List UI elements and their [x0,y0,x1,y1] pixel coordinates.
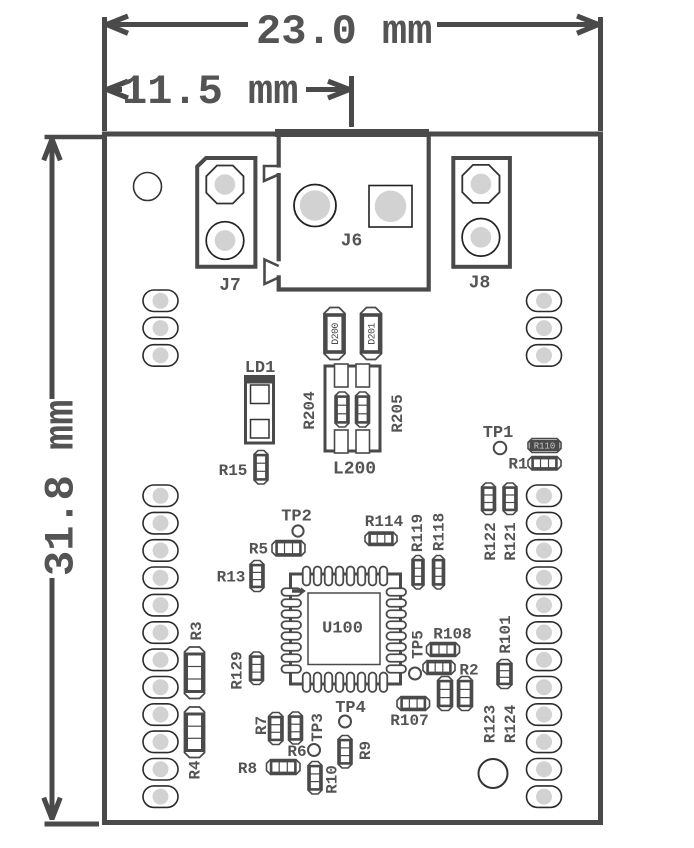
resistor R119 body [412,556,424,590]
resistor R3 body [185,647,205,699]
J7 pin 1 octagon pad [206,166,243,204]
resistor R129 body [250,652,264,685]
svg-text:LD1: LD1 [245,359,276,378]
resistor R110 body (dark) [528,439,561,453]
L200 pad bottom-left [335,430,349,453]
resistor R204 body (inside L200) [335,392,349,427]
LD1 pad 2 [251,420,270,439]
svg-text:R107: R107 [390,712,428,730]
svg-text:R3: R3 [188,621,206,640]
L200 pad top-right [356,364,370,387]
svg-text:R119: R119 [409,514,427,552]
svg-text:R122: R122 [482,522,500,560]
J6 square pad [369,186,412,228]
dimension line 23.0 mm right segment with arrow [437,22,596,27]
dimension tick top left (31.8 mm) [45,135,104,139]
svg-text:11.5 mm: 11.5 mm [122,68,298,116]
resistor R2 body left [438,677,453,711]
connector J8 outline [453,158,510,267]
svg-text:R114: R114 [365,513,404,531]
svg-text:R101: R101 [497,615,515,653]
pad left column 2 [143,512,178,534]
resistor R15 body [254,451,268,485]
resistor R7 body [269,713,284,745]
connector J7 outline [197,158,255,267]
resistor R13 body [250,561,264,592]
pad left column 11 [143,759,178,781]
dimension tick bottom left (31.8 mm) [45,822,100,827]
L200 outline [325,366,380,451]
L200 pad bottom-right [356,430,370,453]
pad right column 5 [527,594,562,616]
pad left column top 1 [143,290,178,312]
svg-text:31.8 mm: 31.8 mm [38,400,86,576]
J8 pin 1 octagon pad [462,165,499,203]
test point TP5 [409,668,421,680]
svg-text:J6: J6 [341,231,363,251]
pad right column 2 [527,512,562,534]
svg-text:R5: R5 [249,541,268,559]
resistor R1 body [528,457,561,471]
pad right column top 2 [527,317,562,339]
pad left column 8 [143,677,178,699]
pad left column 4 [143,567,178,589]
resistor R118 body [433,556,445,590]
svg-text:TP3: TP3 [309,713,327,742]
resistor R4 body [185,707,205,758]
svg-text:R123: R123 [482,705,500,743]
dimension line 11.5 mm right segment with arrow [306,87,346,92]
resistor R205 body (inside L200) [356,392,370,427]
pad right column top 3 [527,345,562,367]
svg-text:R124: R124 [502,704,520,743]
pad left column 12 [143,786,178,808]
svg-text:J8: J8 [469,273,491,293]
dimension tick 11.5 mm (USB centre line) [349,76,354,127]
svg-text:TP1: TP1 [483,424,514,443]
svg-text:R205: R205 [389,394,407,432]
resistor R5 body [272,541,305,557]
resistor R9 body [338,736,352,769]
resistor R108 body [427,643,460,657]
dimension 11.5 mm left arrow [107,81,128,98]
resistor R101 body [497,660,512,689]
pad right column top 1 [527,290,562,312]
svg-text:R15: R15 [219,462,248,480]
pad left column 9 [143,704,178,726]
svg-text:R129: R129 [229,651,247,689]
resistor R8 body [267,760,301,775]
J6 shield tab upper [276,168,281,173]
test point TP3 [308,744,320,756]
svg-text:R204: R204 [301,391,319,430]
test point TP4 [339,716,351,728]
svg-text:L200: L200 [333,459,376,479]
pad left column top 2 [143,317,178,339]
test point TP2 [292,525,303,536]
pad left column 3 [143,540,178,562]
board outline [105,134,601,823]
resistor R122 body [482,483,496,515]
J6 round pad [294,185,336,227]
svg-text:R8: R8 [238,760,257,778]
LED LD1 body [246,377,274,444]
pad right column 6 [527,622,562,644]
svg-text:U100: U100 [322,619,363,638]
pad right column 11 [527,759,562,781]
pad left column 7 [143,649,178,671]
J6 USB shield top bar [275,129,429,137]
svg-text:R10: R10 [324,765,342,794]
diode D200 [324,308,345,360]
resistor R121 body [503,483,517,515]
resistor R114 body [365,532,397,546]
svg-text:R13: R13 [217,569,246,587]
pad right column 10 [527,731,562,753]
svg-text:R121: R121 [502,522,520,560]
pad left column 5 [143,594,178,616]
J7 pin 2 round pad [206,222,244,260]
resistor R107 body [397,697,430,711]
svg-text:R9: R9 [357,741,375,760]
pad right column 9 [527,704,562,726]
svg-text:R118: R118 [431,513,449,551]
pad right column 8 [527,677,562,699]
pad right column 4 [527,567,562,589]
pad left column 1 [143,485,178,507]
J6 shield tab lower [276,261,281,275]
pad right column 1 [527,485,562,507]
svg-text:R1: R1 [508,456,527,474]
resistor R6 body [289,712,303,744]
svg-text:R108: R108 [433,626,471,644]
resistor R2 body upper [423,661,455,675]
dimension line 23.0 mm left segment with arrow [109,22,248,27]
pad left column top 3 [143,345,178,367]
pad left column 6 [143,622,178,644]
L200 pad top-left [335,364,349,387]
diode D201 [361,308,382,360]
svg-text:TP4: TP4 [335,699,366,718]
svg-text:D200: D200 [331,323,342,345]
svg-text:R6: R6 [287,743,306,761]
LD1 pad 1 [251,385,270,404]
J6 USB body outline [279,135,429,290]
svg-text:R4: R4 [187,760,205,780]
pad right column 3 [527,540,562,562]
svg-text:D201: D201 [368,323,379,345]
svg-text:TP5: TP5 [410,630,428,659]
pad left column 10 [143,731,178,753]
dimension line 31.8 mm vertical with arrows [50,140,55,399]
svg-text:R110: R110 [534,442,556,452]
resistor R10 body [308,762,322,795]
svg-text:TP2: TP2 [281,507,312,526]
dimension extension line left (board left edge up) [102,17,107,131]
svg-text:J7: J7 [219,276,241,296]
test point TP1 [494,442,507,455]
dimension extension line right (board right edge up) [598,17,603,131]
J8 pin 2 round pad [462,219,500,257]
pad right column 7 [527,649,562,671]
hole bottom-right [479,759,508,788]
resistor R2 body right [458,677,473,711]
hole top-left [134,173,162,201]
pad right column 12 [527,786,562,808]
svg-text:23.0 mm: 23.0 mm [256,8,432,56]
IC U100 (QFN-32) [291,574,401,684]
